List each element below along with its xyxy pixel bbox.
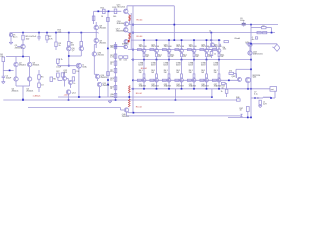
svg-text:2SA1943: 2SA1943 bbox=[151, 85, 158, 88]
wire cascode links bbox=[15, 67, 17, 77]
wire predriver feed bbox=[94, 10, 122, 12]
resistor base RB4 bbox=[175, 49, 179, 51]
svg-text:R27: R27 bbox=[56, 71, 59, 73]
wire base rail top y49.6 bbox=[128, 49, 213, 51]
svg-text:MJE15031: MJE15031 bbox=[253, 53, 263, 55]
svg-text:1W: 1W bbox=[119, 60, 122, 62]
resistor R42 bbox=[229, 72, 234, 74]
resistor base RBL6 bbox=[200, 79, 204, 81]
svg-text:2SA1943: 2SA1943 bbox=[214, 85, 221, 88]
wire q44 col bbox=[249, 47, 251, 51]
resistor R13 bbox=[114, 9, 117, 14]
resistor emitter RE6 bbox=[206, 53, 208, 56]
node zobel a bbox=[254, 97, 256, 99]
svg-text:0.1u: 0.1u bbox=[254, 94, 258, 96]
svg-text:1k: 1k bbox=[110, 64, 112, 66]
svg-text:2N5401: 2N5401 bbox=[99, 28, 107, 30]
resistor R47 bbox=[246, 107, 249, 112]
svg-text:470: 470 bbox=[229, 71, 232, 73]
wire R4 down bbox=[2, 62, 4, 77]
ground zobel bbox=[259, 105, 261, 106]
wire cluster links bbox=[64, 81, 66, 87]
red resistor R17 bbox=[129, 15, 131, 21]
wire R5 C3 column bbox=[38, 70, 40, 75]
svg-text:C9: C9 bbox=[262, 26, 264, 28]
svg-text:5W: 5W bbox=[139, 72, 142, 74]
svg-text:1.4Mark: 1.4Mark bbox=[33, 94, 42, 97]
svg-text:10u: 10u bbox=[110, 96, 113, 98]
wire bias column bbox=[115, 42, 117, 100]
svg-text:2SA1943: 2SA1943 bbox=[201, 85, 208, 88]
transistor Q40 bbox=[124, 108, 128, 112]
resistor R36 bbox=[257, 32, 261, 34]
node bottom right a bbox=[247, 117, 249, 119]
node mirror left bbox=[68, 32, 70, 34]
resistor emitter RE5 bbox=[193, 53, 195, 56]
resistor bias C5 bbox=[114, 69, 117, 73]
svg-text:2SC5200: 2SC5200 bbox=[117, 7, 126, 9]
node rail32 x211 bbox=[210, 32, 212, 34]
svg-text:2N5401: 2N5401 bbox=[26, 91, 34, 93]
node bottom right b bbox=[250, 117, 252, 119]
wire feedback y107.5 bbox=[28, 107, 121, 109]
transistor Q2 bbox=[14, 62, 18, 66]
svg-text:0.1uF: 0.1uF bbox=[56, 66, 62, 68]
wire emitter QT5 bbox=[193, 57, 195, 60]
node R3 junction bbox=[55, 32, 57, 34]
current source I1 bbox=[76, 63, 81, 68]
transistor QT7 top output bbox=[217, 49, 221, 53]
transistor Q17 predriver PNP bbox=[124, 28, 128, 32]
wire base feed Q2 bbox=[6, 56, 16, 58]
node bias rail99 bbox=[115, 99, 117, 101]
voltage source V1 bbox=[9, 33, 12, 36]
svg-text:2N5551: 2N5551 bbox=[122, 116, 130, 118]
resistor R7 bbox=[68, 42, 71, 46]
capacitor C7 zobel bbox=[257, 97, 259, 99]
wire bottom rail y115.9 bbox=[127, 115, 242, 117]
svg-text:2.2k: 2.2k bbox=[58, 31, 62, 33]
wire drop x175.4 bbox=[174, 89, 176, 100]
transistor Q7 bbox=[79, 46, 83, 50]
capacitor C3 bbox=[38, 83, 41, 87]
wire VAS column bbox=[97, 32, 99, 35]
node rail43 x251 bbox=[250, 43, 252, 45]
wire mirror drops bbox=[68, 33, 70, 42]
node q14 rail bbox=[68, 99, 70, 101]
svg-text:5W: 5W bbox=[171, 56, 174, 58]
wire rb2 links bbox=[211, 49, 213, 51]
resistor base RBL4 bbox=[175, 79, 179, 81]
port output box bbox=[270, 87, 277, 92]
svg-text:5W: 5W bbox=[208, 56, 211, 58]
svg-text:2SC5200: 2SC5200 bbox=[151, 46, 159, 48]
svg-text:AC 1: AC 1 bbox=[13, 35, 18, 38]
transistor QB1 bottom output bbox=[142, 78, 146, 82]
svg-text:10: 10 bbox=[110, 80, 112, 82]
transistor Q43 driver top bbox=[248, 42, 252, 46]
svg-text:5W: 5W bbox=[214, 72, 217, 74]
svg-text:R5: R5 bbox=[41, 76, 44, 78]
wire load drop bbox=[274, 91, 276, 98]
node rail88 x251 bbox=[250, 88, 252, 90]
resistor R1 bbox=[22, 35, 24, 40]
svg-text:1k: 1k bbox=[209, 30, 211, 32]
wire collector QB2 bbox=[156, 82, 158, 89]
wire collector q45 up bbox=[236, 68, 251, 70]
transistor Q41 bias bbox=[210, 43, 214, 47]
transistor Q14 bbox=[66, 90, 70, 94]
wire I1 column bbox=[78, 68, 80, 97]
zobel wire bbox=[251, 97, 253, 99]
svg-text:2N5551: 2N5551 bbox=[99, 42, 107, 44]
resistor R25 bbox=[119, 56, 123, 59]
wire top feed to right bbox=[127, 5, 174, 7]
svg-text:5W: 5W bbox=[164, 72, 167, 74]
node base q45 bbox=[228, 79, 230, 81]
resistor emitter REL2 bbox=[156, 74, 158, 78]
node rail40 x211 bbox=[210, 39, 212, 41]
red resistor R19 small bbox=[128, 40, 130, 43]
node diff out bbox=[22, 99, 24, 101]
resistor emitter REL1 bbox=[143, 74, 145, 78]
transistor QB6 bottom output bbox=[205, 78, 209, 82]
wire emitter QT6 bbox=[206, 57, 208, 60]
transistor Q1 bbox=[21, 44, 25, 48]
resistor base RB7 bbox=[212, 49, 216, 51]
node out rail x251 bbox=[250, 59, 252, 61]
transistor Q13 bbox=[69, 81, 73, 85]
svg-text:2SA1943: 2SA1943 bbox=[116, 29, 125, 32]
node rail113 x133 bbox=[133, 112, 135, 114]
svg-text:Q13: Q13 bbox=[63, 72, 68, 74]
svg-text:0.047uF: 0.047uF bbox=[29, 36, 37, 38]
node mirror i1 wire bbox=[68, 65, 70, 67]
wire collector QT5 bbox=[193, 40, 195, 49]
svg-text:5W: 5W bbox=[183, 56, 186, 58]
resistor emitter RE2 bbox=[156, 53, 158, 56]
node feed b bbox=[108, 10, 110, 12]
svg-text:65mA: 65mA bbox=[235, 37, 241, 40]
resistor base RB6 bbox=[200, 49, 204, 51]
wire diff tail bbox=[22, 52, 24, 56]
capacitor C9 bypass bbox=[262, 26, 267, 28]
resistor base RB1 bbox=[137, 49, 141, 51]
node feed a bbox=[97, 10, 99, 12]
resistor emitter REL6 bbox=[206, 74, 208, 78]
resistor R12 bbox=[103, 9, 106, 13]
wire emitters to rail bbox=[15, 81, 17, 86]
node x175 rail100 bbox=[175, 99, 177, 101]
node rail24 x251 bbox=[250, 24, 252, 26]
node sense end bbox=[211, 96, 213, 98]
wire bias drop bbox=[210, 33, 212, 43]
resistor R5 bbox=[38, 75, 41, 79]
resistor emitter RE3 bbox=[168, 53, 170, 56]
svg-text:60mV: 60mV bbox=[163, 65, 168, 67]
wire zobel out bbox=[262, 97, 263, 99]
wire collector QB6 bbox=[206, 82, 208, 89]
resistor R46 bbox=[237, 99, 241, 101]
svg-text:Q14: Q14 bbox=[72, 92, 77, 94]
svg-text:220: 220 bbox=[71, 44, 75, 46]
capacitor C10 bbox=[73, 70, 75, 74]
wire collector QT6 bbox=[206, 40, 208, 49]
resistor emitter REL3 bbox=[168, 74, 170, 78]
transistor Q5 bbox=[27, 77, 31, 81]
node mirror right bbox=[80, 32, 82, 34]
svg-text:60mV: 60mV bbox=[176, 65, 181, 67]
wire drop x174 bbox=[173, 6, 175, 40]
transistor Q3 bbox=[27, 62, 31, 66]
resistor bias R24 bbox=[114, 86, 117, 90]
transistor QT3 top output bbox=[167, 49, 171, 53]
svg-text:2N5401: 2N5401 bbox=[19, 65, 27, 67]
transistor Q11 bbox=[97, 82, 101, 86]
svg-text:1k: 1k bbox=[110, 88, 112, 90]
transistor Q16 driver NPN bbox=[124, 22, 128, 26]
wire red r18 links bbox=[127, 32, 129, 33]
wire x251 main drop bbox=[250, 25, 252, 118]
svg-text:R0.44: R0.44 bbox=[137, 36, 144, 38]
node x108 tap bbox=[107, 48, 109, 50]
wire q14 emitter bbox=[68, 94, 70, 100]
wire collector rail top y40.1 bbox=[131, 39, 221, 41]
svg-text:R0.44: R0.44 bbox=[136, 106, 143, 108]
wire red link mid bbox=[128, 93, 130, 99]
svg-text:2SA1943: 2SA1943 bbox=[164, 85, 171, 88]
resistor emitter REL4 bbox=[181, 74, 183, 78]
resistor R2 bbox=[46, 35, 48, 40]
wire V1 to ground bbox=[10, 37, 12, 43]
wire ground rail y100.0 bbox=[3, 99, 236, 101]
wire collector QB1 bbox=[143, 82, 145, 89]
wire q46 emitter bbox=[247, 83, 249, 89]
resistor bias R23 bbox=[114, 77, 117, 81]
svg-text:C10: C10 bbox=[76, 71, 79, 73]
svg-text:2N5401: 2N5401 bbox=[12, 91, 20, 93]
transistor Q44 bbox=[248, 51, 252, 55]
svg-text:220: 220 bbox=[110, 47, 113, 49]
red resistor R31 bbox=[128, 99, 130, 107]
svg-text:1k: 1k bbox=[221, 91, 223, 93]
transistor QB7 bottom output bbox=[217, 78, 221, 82]
svg-text:2uH: 2uH bbox=[263, 104, 267, 106]
svg-text:2N5551: 2N5551 bbox=[100, 77, 108, 79]
wire collector QT7 bbox=[218, 40, 220, 49]
red resistor R30 bbox=[128, 86, 130, 94]
svg-text:R0.44: R0.44 bbox=[141, 68, 148, 70]
node rail88 x248 bbox=[247, 88, 249, 90]
transistor Q10 bbox=[95, 74, 99, 78]
transistor QT1 top output bbox=[142, 49, 146, 53]
wire bottom rail y112.7 bbox=[130, 112, 174, 114]
capacitor C4 bbox=[57, 59, 60, 63]
wire diamond feed bbox=[276, 43, 278, 46]
wire collector QB5 bbox=[193, 82, 195, 89]
wire emitter QT3 bbox=[168, 57, 170, 60]
svg-text:2SC5200: 2SC5200 bbox=[201, 46, 209, 48]
wire bypass right bbox=[266, 27, 272, 29]
wire emitter QT2 bbox=[156, 57, 158, 60]
transistor Q45 bbox=[238, 78, 242, 82]
node x108 a bbox=[107, 79, 109, 81]
transistor Q4 bbox=[14, 77, 18, 81]
node d1 bbox=[132, 24, 134, 26]
wire VAS lower bbox=[95, 43, 97, 45]
resistor R40 vas load bbox=[224, 41, 228, 43]
wire r44b down bbox=[226, 93, 228, 97]
resistor base RB3 bbox=[162, 49, 166, 51]
resistor bias R21 bbox=[114, 54, 117, 58]
wire collector QB3 bbox=[168, 82, 170, 89]
svg-text:Q46: Q46 bbox=[253, 77, 257, 79]
transistor Q8 bbox=[94, 25, 98, 29]
svg-text:R0.44: R0.44 bbox=[136, 93, 143, 95]
node rail40 x174 bbox=[173, 39, 175, 41]
svg-text:10: 10 bbox=[222, 87, 224, 89]
svg-text:4.7k: 4.7k bbox=[49, 38, 54, 40]
svg-text:5W: 5W bbox=[201, 72, 204, 74]
resistor bias C6b bbox=[114, 93, 117, 97]
wire emitter QT1 bbox=[143, 57, 145, 60]
wire r42 to base bbox=[234, 72, 237, 74]
transistor Q12 bbox=[63, 77, 67, 81]
resistor base RBL2 bbox=[150, 79, 154, 81]
svg-text:2SA1943: 2SA1943 bbox=[189, 85, 196, 88]
node rail96 x79 bbox=[78, 96, 80, 98]
wire input node bbox=[3, 69, 13, 71]
wire Q40 links bbox=[120, 108, 122, 111]
svg-text:22k: 22k bbox=[0, 56, 3, 58]
resistor R37 bbox=[263, 32, 267, 34]
resistor R27 bbox=[57, 73, 60, 77]
wire bottom right bbox=[228, 116, 251, 118]
svg-text:100p: 100p bbox=[240, 20, 245, 22]
svg-text:2N5401: 2N5401 bbox=[32, 65, 40, 67]
node q45 up bbox=[250, 68, 252, 70]
resistor emitter REL7 bbox=[218, 74, 220, 78]
wire base rail bottom y80.3 bbox=[133, 79, 213, 81]
resistor emitter RE1 bbox=[143, 53, 145, 56]
wire collector QB4 bbox=[181, 82, 183, 89]
resistor emitter REL5 bbox=[193, 74, 195, 78]
transistor QT6 top output bbox=[205, 49, 209, 53]
wire emitter QT7 bbox=[218, 57, 220, 60]
resistor R11b on x108 bbox=[107, 17, 110, 21]
wire collector QT2 bbox=[156, 40, 158, 49]
resistor bias R20 bbox=[114, 45, 117, 49]
node cap junction bbox=[38, 32, 40, 34]
svg-text:60mV: 60mV bbox=[138, 65, 143, 67]
wire cluster a bbox=[57, 77, 59, 80]
svg-text:10: 10 bbox=[240, 110, 242, 112]
wire rail V+ y24.6 bbox=[129, 24, 278, 26]
resistor base RBL3 bbox=[162, 79, 166, 81]
svg-text:10: 10 bbox=[101, 16, 103, 18]
wire vas rail y43.8 bbox=[246, 43, 277, 45]
resistor R8 bbox=[80, 42, 83, 46]
wire collector QT3 bbox=[168, 40, 170, 49]
resistor base RBL7 bbox=[212, 79, 216, 81]
svg-text:1k: 1k bbox=[58, 45, 61, 47]
transistor QB3 bottom output bbox=[167, 78, 171, 82]
node R2 junction bbox=[46, 32, 48, 34]
svg-text:47u: 47u bbox=[110, 71, 113, 73]
svg-text:60mV: 60mV bbox=[151, 65, 156, 67]
node d4 bbox=[132, 59, 134, 61]
svg-text:2SC5200: 2SC5200 bbox=[189, 46, 197, 48]
node d2 bbox=[132, 32, 134, 34]
wire mirror emitters bbox=[68, 51, 70, 66]
resistor emitter RE4 bbox=[181, 53, 183, 56]
transistor Q18 driver PNP bbox=[124, 40, 128, 44]
svg-text:2SC5200: 2SC5200 bbox=[139, 46, 147, 48]
inductor L1 bbox=[263, 97, 265, 98]
svg-text:3.3k: 3.3k bbox=[223, 49, 227, 51]
svg-text:60mV: 60mV bbox=[213, 65, 218, 67]
node d3 bbox=[132, 49, 134, 51]
wire collector rail bottom y88.8 bbox=[131, 88, 270, 90]
ground under V1 bbox=[9, 41, 13, 43]
svg-text:2N5551: 2N5551 bbox=[15, 47, 23, 49]
resistor R4 input bias bbox=[2, 57, 5, 62]
resistor emitter RE7 bbox=[218, 53, 220, 56]
svg-text:1k: 1k bbox=[73, 83, 75, 85]
resistor R26 bbox=[124, 56, 128, 59]
wire driver rail x131 bbox=[130, 13, 132, 50]
wire rail bias y32.6 bbox=[129, 32, 275, 34]
node x108 b bbox=[107, 84, 109, 86]
wire C4 stub bbox=[57, 63, 59, 65]
transistor Q9 bbox=[94, 38, 98, 42]
svg-text:60mV: 60mV bbox=[201, 65, 206, 67]
node zobel b bbox=[270, 97, 272, 99]
svg-text:R46: R46 bbox=[236, 97, 239, 99]
wire feed drop bbox=[93, 11, 95, 24]
resistor base RBL5 bbox=[187, 79, 191, 81]
resistor bias R22 bbox=[114, 61, 117, 65]
resistor R35 bbox=[255, 37, 257, 39]
capacitor C1 bbox=[37, 36, 40, 38]
svg-text:Q45: Q45 bbox=[232, 76, 236, 78]
svg-text:5W: 5W bbox=[146, 56, 149, 58]
svg-text:4.7k: 4.7k bbox=[59, 59, 63, 61]
svg-text:5W: 5W bbox=[189, 72, 192, 74]
resistor R3 bbox=[55, 42, 57, 47]
transistor QT5 top output bbox=[192, 49, 196, 53]
resistor R10 bbox=[72, 77, 74, 81]
node mirror join bbox=[68, 55, 70, 57]
resistor RB2 under bias bbox=[210, 52, 213, 56]
wire cluster b bbox=[64, 72, 66, 77]
svg-text:5W: 5W bbox=[196, 56, 199, 58]
svg-text:2SC5200: 2SC5200 bbox=[164, 46, 172, 48]
wire bypass top bbox=[251, 27, 262, 29]
wire base rail to q45 bbox=[213, 79, 238, 81]
resistor base RB5 bbox=[187, 49, 191, 51]
capacitor C2 bbox=[2, 75, 5, 77]
resistor base RBL1 bbox=[137, 79, 141, 81]
node input junction bbox=[22, 32, 24, 34]
wire collector QB7 bbox=[218, 82, 220, 89]
svg-text:5W: 5W bbox=[176, 72, 179, 74]
svg-text:100: 100 bbox=[113, 16, 116, 18]
red resistor R18 bbox=[129, 33, 131, 39]
svg-text:2N5551: 2N5551 bbox=[102, 85, 110, 87]
node q19 base bbox=[115, 46, 117, 48]
node red rail bbox=[128, 96, 130, 98]
